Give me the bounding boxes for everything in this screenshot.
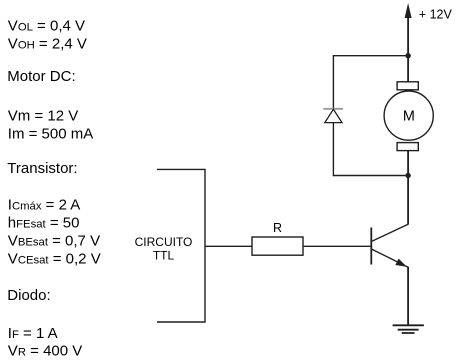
value label VCEsat = 0,2 V [8, 251, 101, 268]
svg-text:Motor DC:: Motor DC: [7, 68, 75, 85]
value label hFEsat = 50 [8, 215, 80, 232]
heading Transistor [7, 160, 77, 177]
wire collector vertical [407, 176, 409, 225]
svg-text:R: R [273, 221, 282, 235]
wire resistor to transistor base [303, 245, 371, 247]
value label VR = 400 V [8, 343, 82, 360]
ground [393, 325, 424, 333]
svg-text:M: M [403, 109, 415, 125]
svg-text:VOL = 0,4 V: VOL = 0,4 V [8, 17, 85, 34]
node +12V supply arrow [405, 3, 453, 56]
heading Diodo [7, 287, 50, 304]
resistor R [252, 221, 303, 255]
wire diode bottom horizontal [333, 175, 408, 177]
value label IF = 1 A [8, 325, 58, 342]
svg-text:CIRCUITO: CIRCUITO [135, 235, 193, 249]
diode D1 (flyback) [323, 109, 343, 123]
value label VBEsat = 0,7 V [8, 232, 100, 249]
value label Im = 500 mA [8, 125, 93, 142]
wire TTL output to resistor [205, 245, 252, 247]
svg-text:VR = 400 V: VR = 400 V [8, 343, 82, 360]
value label VOL = 0,4 V [8, 17, 85, 34]
value label Vm = 12 V [8, 108, 78, 125]
svg-text:VOH = 2,4 V: VOH = 2,4 V [8, 36, 87, 53]
svg-text:VBEsat = 0,7 V: VBEsat = 0,7 V [8, 232, 100, 249]
svg-text:+ 12V: + 12V [419, 7, 453, 21]
wire rail to motor top [407, 56, 409, 82]
wire diode branch upper vertical [332, 55, 334, 109]
heading Motor DC [7, 68, 75, 85]
svg-text:Vm = 12 V: Vm = 12 V [8, 108, 78, 125]
wire emitter vertical [407, 267, 409, 326]
svg-text:Im = 500 mA: Im = 500 mA [8, 125, 93, 142]
transistor Q1 (NPN) [371, 224, 408, 267]
wire diode top horizontal [333, 55, 408, 57]
junction dot bottom [405, 173, 410, 178]
svg-text:Diodo:: Diodo: [7, 287, 50, 304]
junction dot top [405, 53, 410, 58]
TTL circuit block U1 [135, 169, 205, 322]
svg-text:Transistor:: Transistor: [7, 160, 77, 177]
wire motor bottom to junction [407, 151, 409, 176]
svg-text:VCEsat = 0,2 V: VCEsat = 0,2 V [8, 251, 101, 268]
value label VOH = 2,4 V [8, 36, 87, 53]
svg-text:ICmáx = 2 A: ICmáx = 2 A [8, 197, 80, 214]
svg-text:hFEsat = 50: hFEsat = 50 [8, 215, 80, 232]
svg-text:TTL: TTL [153, 249, 175, 263]
motor M1 [384, 82, 433, 151]
svg-text:IF = 1 A: IF = 1 A [8, 325, 58, 342]
value label ICmax = 2 A [8, 197, 80, 214]
wire diode branch lower vertical [332, 123, 334, 177]
